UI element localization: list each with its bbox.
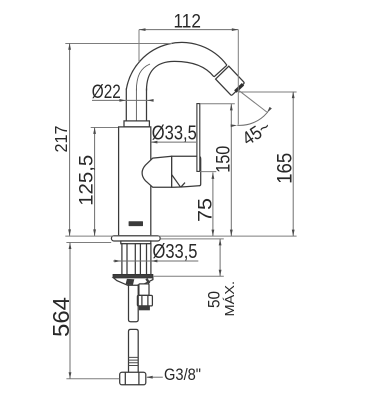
TRES logo — [129, 221, 143, 226]
base flange — [111, 236, 160, 241]
dim line 75 — [212, 172, 214, 236]
supply hose upper section — [129, 284, 139, 321]
spout collar — [124, 121, 149, 127]
ext base top long — [65, 235, 296, 237]
dim line 112 — [139, 29, 238, 31]
aerator outlet dark face — [235, 84, 243, 91]
ext 75 top — [200, 171, 217, 173]
bracket dark slot — [126, 279, 135, 285]
svg-text:75: 75 — [195, 198, 216, 222]
hex nut facets — [142, 295, 148, 306]
base lower collar — [121, 241, 151, 244]
svg-text:Ø33,5: Ø33,5 — [153, 241, 198, 263]
svg-text:150: 150 — [214, 146, 235, 173]
dim line 150 — [230, 104, 232, 236]
svg-text:G3/8": G3/8" — [164, 366, 201, 384]
dim line Ø33,5 upper — [151, 141, 196, 143]
G3/8 end fitting — [120, 372, 146, 385]
ext 50 top — [161, 238, 224, 240]
bracket dark mark — [146, 279, 149, 284]
svg-text:125,5: 125,5 — [76, 155, 97, 206]
lever rod raised (vertical plate) — [197, 104, 200, 172]
dim line 50 — [219, 239, 221, 276]
ext 150 top — [200, 103, 235, 105]
svg-text:217: 217 — [51, 126, 71, 153]
spout tube mid seam — [135, 89, 137, 121]
ext 112 right / 45deg vertical — [237, 30, 239, 125]
dim line Ø22 — [92, 99, 152, 101]
fitting facet lines — [125, 372, 139, 385]
body cylinder — [119, 127, 151, 236]
spout inner arc — [147, 61, 214, 90]
threaded rod right — [147, 244, 151, 275]
mounting bracket horseshoe — [113, 278, 153, 286]
svg-text:MÁX.: MÁX. — [222, 281, 237, 317]
handle block facet line — [172, 175, 185, 188]
mounting bracket bar — [113, 274, 153, 277]
dim line 125,5 — [94, 127, 96, 235]
spout outer arc — [126, 42, 227, 89]
ext 112 left — [138, 30, 140, 62]
supply pipe upper — [135, 244, 140, 275]
svg-text:165: 165 — [273, 153, 296, 184]
hose nut dark collar — [139, 306, 150, 310]
svg-text:50: 50 — [205, 291, 224, 308]
ext 564 top — [66, 242, 111, 244]
supply hose lower section — [129, 329, 139, 372]
svg-text:Ø22: Ø22 — [92, 81, 121, 103]
aerator cap — [216, 66, 245, 95]
leader G3/8 — [147, 376, 163, 378]
spout tube right edge — [146, 89, 148, 121]
45deg arc — [237, 113, 267, 125]
handle lever wedge — [142, 156, 172, 187]
dim line 564 — [69, 243, 71, 379]
svg-text:Ø33,5: Ø33,5 — [152, 123, 197, 145]
threaded rod left — [122, 244, 127, 275]
tube end ring line — [214, 65, 227, 77]
svg-text:112: 112 — [174, 11, 202, 32]
dim line 165 — [292, 92, 294, 237]
ext 50 bottom — [153, 275, 224, 277]
ext 165 top — [239, 91, 297, 93]
spout mid seam arc — [136, 64, 150, 91]
ext 217 top — [65, 43, 172, 45]
dim line Ø33,5 lower — [113, 260, 198, 262]
handle block — [172, 156, 201, 187]
ext 125,5 top — [91, 127, 118, 129]
spout tube left edge — [125, 89, 127, 121]
svg-text:564: 564 — [48, 297, 74, 337]
hose thread bands — [129, 357, 139, 365]
hose hex nut — [137, 295, 152, 306]
dim line 217 — [69, 43, 71, 236]
hose adapter — [139, 284, 149, 296]
45deg ray — [238, 90, 268, 113]
ext 564 bottom — [66, 378, 119, 380]
